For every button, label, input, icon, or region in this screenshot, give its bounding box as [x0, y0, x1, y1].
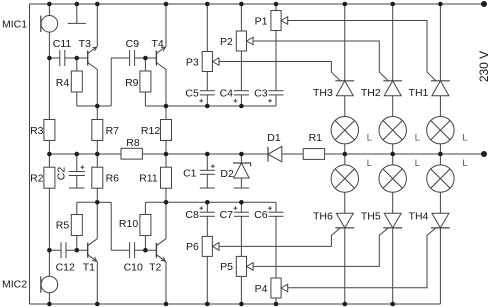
wire MIC2 to node: [48, 250, 50, 304]
resistor R1: [303, 149, 324, 160]
transistor T2: [156, 239, 166, 262]
wire C6 P4 column: [275, 216, 277, 304]
potentiometer P6: [202, 236, 219, 256]
svg-text:C10: C10: [124, 262, 143, 274]
wire thyristor to lamp x=392.7: [392, 96, 394, 117]
ground: [68, 22, 86, 24]
svg-text:L: L: [462, 133, 467, 143]
transistor T3: [88, 47, 98, 70]
svg-text:L: L: [367, 158, 372, 168]
svg-text:R7: R7: [106, 125, 120, 137]
terminal 230V mid: [481, 151, 487, 157]
wire C9 to T4 base: [135, 57, 157, 59]
wire TH4 cathode to rail corner: [439, 228, 441, 304]
capacitor C7: [234, 212, 249, 216]
wire ground stub: [76, 4, 78, 23]
wire thyristor cathode x=392.7: [392, 228, 394, 304]
wire C10 to T2 base: [135, 249, 157, 251]
potentiometer P1: [271, 11, 288, 31]
capacitor C1: [200, 170, 215, 174]
svg-text:C1: C1: [183, 168, 197, 180]
capacitor C10: [130, 242, 135, 258]
svg-text:MIC2: MIC2: [2, 279, 27, 291]
wire P2-TH2 gate: [253, 41, 388, 81]
svg-text:C6: C6: [254, 209, 268, 221]
wire R11 branch: [165, 154, 167, 202]
wire T3 collector: [96, 4, 98, 47]
svg-text:C9: C9: [126, 38, 140, 50]
lamp L3 bottom: [427, 165, 454, 192]
wire D2 anode stub: [240, 154, 242, 163]
wire stage1 to C9: [77, 58, 130, 106]
wire C8 P6 column: [206, 202, 208, 304]
svg-text:P5: P5: [220, 261, 233, 273]
svg-text:C7: C7: [220, 209, 234, 221]
wire P3 C5 column: [206, 4, 208, 106]
svg-text:TH1: TH1: [409, 87, 429, 99]
polarity marks: [81, 99, 272, 210]
wire C7 P5 column: [240, 202, 242, 304]
svg-text:R1: R1: [309, 132, 323, 144]
svg-text:R10: R10: [119, 218, 138, 230]
wire P1-TH1 gate: [288, 21, 436, 81]
resistor R8: [121, 148, 142, 159]
wire mid rail to lamp x=344.8: [344, 154, 346, 165]
wire emitter rail to C3: [145, 95, 276, 106]
lamp L1 bottom: [331, 165, 358, 192]
wire C2 branch: [76, 154, 78, 188]
lamp L2 top: [379, 117, 406, 144]
svg-text:R4: R4: [56, 77, 70, 89]
resistor R4: [71, 71, 82, 92]
wire T3 emitter: [96, 70, 98, 107]
svg-text:TH4: TH4: [409, 210, 429, 222]
capacitor C3: [269, 91, 284, 95]
resistor R6: [92, 167, 103, 188]
wire R5 branch: [77, 202, 98, 250]
capacitor C4: [234, 91, 249, 95]
wire P5-TH5 gate: [253, 228, 388, 267]
capacitor C5: [200, 91, 215, 95]
transistor T4: [156, 47, 166, 70]
svg-text:C2: C2: [56, 167, 68, 181]
svg-text:L: L: [367, 133, 372, 143]
svg-text:L: L: [415, 158, 420, 168]
wire T2 emitter: [165, 262, 167, 304]
svg-text:D2: D2: [220, 168, 234, 180]
svg-text:TH5: TH5: [361, 210, 381, 222]
thyristor TH2: [383, 81, 402, 96]
wire T2 collector: [165, 202, 167, 238]
zener diode D2: [233, 163, 251, 178]
wire C12 base coupling: [49, 249, 87, 251]
svg-text:T1: T1: [83, 262, 95, 274]
ground under D2: [234, 187, 250, 189]
capacitor C2: [69, 172, 85, 176]
svg-text:R3: R3: [30, 125, 44, 137]
thyristor TH4: [431, 213, 450, 228]
wire T4 emitter: [165, 70, 167, 107]
svg-text:D1: D1: [267, 132, 281, 144]
svg-text:P2: P2: [220, 36, 233, 48]
thyristor TH3: [335, 81, 354, 96]
microphone MIC2: [41, 276, 58, 293]
wire R4 branch: [76, 58, 78, 106]
wire C11 base coupling: [49, 57, 87, 59]
svg-text:R9: R9: [125, 77, 139, 89]
svg-text:C5: C5: [185, 87, 199, 99]
wire lamp to mid rail x=344.8: [344, 144, 346, 154]
diode D1: [268, 146, 282, 161]
resistor R10: [140, 215, 151, 236]
potentiometer P5: [236, 256, 253, 276]
capacitor C12: [61, 242, 66, 258]
svg-text:R6: R6: [106, 173, 120, 185]
resistor R12: [161, 120, 172, 141]
lamp L labels: [367, 133, 468, 168]
capacitor C8: [200, 212, 215, 216]
svg-text:P6: P6: [186, 241, 199, 253]
wire top supply rail: [30, 3, 485, 5]
wire R3 branch: [48, 58, 50, 154]
wire P3-TH3 gate: [219, 62, 340, 81]
wire R2 branch: [48, 154, 50, 250]
wire R12 branch: [165, 106, 167, 154]
potentiometer P2: [236, 31, 253, 51]
svg-text:R2: R2: [30, 173, 44, 185]
wire T1 collector: [96, 202, 98, 238]
wire P6-TH6 gate: [219, 228, 340, 247]
wire T4 collector: [165, 4, 167, 47]
lamp L2 bottom: [379, 165, 406, 192]
capacitor C11: [60, 50, 65, 66]
svg-text:T3: T3: [79, 38, 91, 50]
svg-text:TH6: TH6: [313, 210, 333, 222]
wire thyristor to lamp x=440.4: [439, 96, 441, 117]
wire C1 branch: [206, 154, 208, 188]
resistor R7: [92, 120, 103, 141]
wire lamp to thyristor x=440.4: [439, 192, 441, 213]
wire thyristor anode x=344.8: [344, 4, 346, 81]
svg-text:C4: C4: [220, 87, 234, 99]
svg-text:C12: C12: [56, 262, 75, 274]
ground under C2: [69, 187, 85, 189]
svg-text:MIC1: MIC1: [2, 19, 27, 31]
transistor T1: [88, 239, 98, 262]
wire P2 C4 column: [240, 4, 242, 106]
wire thyristor anode x=440.4: [439, 4, 441, 81]
svg-text:C3: C3: [254, 87, 268, 99]
thyristor TH5: [383, 213, 402, 228]
svg-text:P3: P3: [186, 56, 199, 68]
resistor R2: [44, 167, 55, 188]
svg-text:C8: C8: [185, 209, 199, 221]
wire lamp to mid rail x=440.4: [439, 144, 441, 154]
thyristor TH6: [335, 213, 354, 228]
wire lamp to thyristor x=344.8: [344, 192, 346, 213]
wire lamp to thyristor x=392.7: [392, 192, 394, 213]
wire left frame rail: [29, 4, 31, 304]
wire mid rail to lamp x=440.4: [439, 154, 441, 165]
resistor R5: [71, 215, 82, 236]
thyristor TH1: [431, 81, 450, 96]
wire stage to C10: [97, 202, 129, 250]
svg-text:R12: R12: [141, 125, 160, 137]
svg-text:R5: R5: [56, 220, 70, 232]
wire collector rail to C6: [145, 202, 276, 212]
svg-text:TH2: TH2: [361, 87, 381, 99]
svg-text:230 V: 230 V: [477, 51, 491, 82]
terminal 230V top: [481, 1, 487, 7]
resistor R9: [140, 71, 151, 92]
wire R9 branch: [144, 58, 146, 106]
wire bottom supply rail: [30, 303, 441, 305]
resistor R11: [161, 167, 172, 188]
potentiometer P3: [202, 52, 219, 72]
svg-text:T2: T2: [149, 262, 161, 274]
wire P4-TH4 gate: [288, 228, 436, 288]
resistor R3: [44, 120, 55, 141]
svg-text:T4: T4: [151, 38, 163, 50]
wire R6 branch: [96, 154, 98, 202]
svg-text:P4: P4: [255, 283, 268, 295]
wire middle output rail: [49, 153, 484, 155]
wire MIC1 to node: [48, 4, 50, 58]
ground under C1: [200, 187, 215, 189]
wire D2 cathode stub: [240, 178, 242, 188]
svg-text:L: L: [462, 158, 467, 168]
wire R7 branch: [96, 106, 98, 154]
svg-text:TH3: TH3: [313, 87, 333, 99]
wire thyristor cathode x=344.8: [344, 228, 346, 304]
capacitor C9: [130, 50, 135, 66]
potentiometer P4: [271, 278, 288, 298]
lamp L3 top: [427, 117, 454, 144]
svg-text:C11: C11: [53, 38, 72, 50]
svg-text:R8: R8: [126, 137, 140, 149]
wire P1 C3 column: [275, 4, 277, 91]
wire T1 emitter: [96, 262, 98, 304]
wire lamp to mid rail x=392.7: [392, 144, 394, 154]
svg-text:P1: P1: [255, 15, 268, 27]
wire mid rail to lamp x=392.7: [392, 154, 394, 165]
wire thyristor to lamp x=344.8: [344, 96, 346, 117]
microphone MIC1: [41, 15, 58, 32]
svg-text:R11: R11: [139, 173, 158, 185]
svg-text:L: L: [415, 133, 420, 143]
wire thyristor anode x=392.7: [392, 4, 394, 81]
lamp L1 top: [331, 117, 358, 144]
wire R10 branch: [144, 202, 146, 250]
capacitor C6: [269, 212, 284, 216]
